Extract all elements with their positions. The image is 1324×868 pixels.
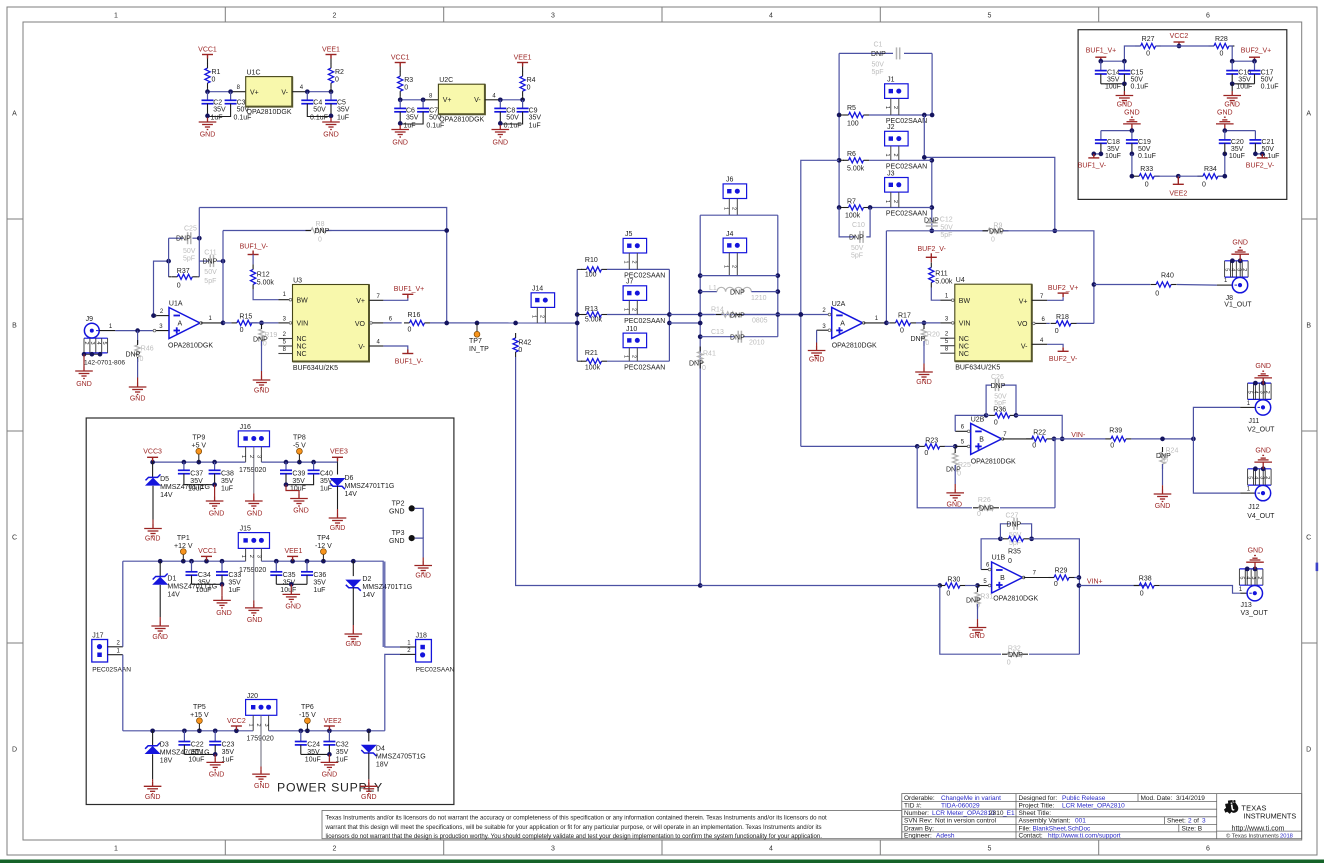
node C6 bottom <box>398 121 403 126</box>
wire R33 to VEE2 <box>1154 175 1178 177</box>
wire bottom row to R30 <box>700 585 942 587</box>
svg-text:10uF: 10uF <box>305 757 321 764</box>
svg-text:5: 5 <box>101 342 107 345</box>
connector J9 142-0701-806 <box>84 323 99 338</box>
svg-text:35V: 35V <box>292 478 305 485</box>
wire VCC2 to R28 <box>1179 45 1214 47</box>
svg-text:C5: C5 <box>337 99 346 106</box>
node feedback left <box>166 259 171 264</box>
svg-text:R26: R26 <box>978 497 991 504</box>
testpoint TP4 -12V <box>322 555 324 562</box>
svg-text:R42: R42 <box>518 340 531 347</box>
svg-text:GND: GND <box>1124 110 1140 117</box>
svg-text:35V: 35V <box>198 580 211 587</box>
svg-text:DNP: DNP <box>991 383 1006 390</box>
wire J-network left vertical <box>699 215 701 585</box>
svg-text:C6: C6 <box>406 107 415 114</box>
svg-text:VEE3: VEE3 <box>330 449 348 456</box>
svg-text:0: 0 <box>335 77 339 84</box>
wire R38 to J13 <box>1160 586 1241 594</box>
svg-text:0: 0 <box>1145 182 1149 189</box>
svg-text:4: 4 <box>1229 268 1235 271</box>
svg-text:V+: V+ <box>1019 298 1028 305</box>
svg-text:GND: GND <box>322 771 338 778</box>
svg-text:1: 1 <box>623 261 629 264</box>
svg-text:0: 0 <box>702 365 706 372</box>
zener diode D1 <box>159 561 161 576</box>
ground GND under C38 <box>214 485 216 497</box>
svg-text:NC: NC <box>959 336 969 343</box>
svg-text:R30: R30 <box>947 577 960 584</box>
svg-text:3: 3 <box>89 342 95 345</box>
svg-text:Drawn By:: Drawn By: <box>904 825 934 832</box>
svg-text:GND: GND <box>389 538 405 545</box>
node C15 bottom <box>1122 81 1127 86</box>
svg-text:NC: NC <box>297 351 307 358</box>
wire C14 bottom to C15 bottom <box>1101 83 1125 85</box>
power port BUF2_V- <box>1257 154 1268 158</box>
svg-text:2: 2 <box>892 154 898 157</box>
svg-text:0: 0 <box>1140 590 1144 597</box>
svg-text:C26: C26 <box>991 374 1004 381</box>
svg-text:0: 0 <box>318 237 322 244</box>
svg-text:GND: GND <box>1255 363 1271 370</box>
svg-text:J13: J13 <box>1241 602 1252 609</box>
pins J18 <box>400 646 416 648</box>
svg-text:V-: V- <box>281 89 288 96</box>
svg-text:C24: C24 <box>307 742 320 749</box>
capacitor C21 <box>1254 131 1256 140</box>
svg-text:R31: R31 <box>980 593 993 600</box>
svg-text:35V: 35V <box>221 478 234 485</box>
svg-text:VCC3: VCC3 <box>143 449 162 456</box>
svg-text:R8: R8 <box>316 221 325 228</box>
svg-text:J2: J2 <box>887 124 895 131</box>
svg-text:10uF: 10uF <box>280 587 296 594</box>
node R35 right <box>1029 536 1034 541</box>
svg-text:J11: J11 <box>1249 418 1260 425</box>
wire J18 pin1 to -12 rail <box>385 562 400 648</box>
wire R27 right to VCC2 <box>1156 45 1179 47</box>
svg-text:5: 5 <box>1247 391 1253 394</box>
svg-text:2: 2 <box>892 106 898 109</box>
svg-text:3: 3 <box>263 724 269 727</box>
wire C20/C21 top rail <box>1225 130 1256 132</box>
wire feedback top <box>199 208 446 324</box>
svg-text:5.00k: 5.00k <box>257 279 275 286</box>
svg-text:1uF: 1uF <box>320 486 332 493</box>
svg-text:35V: 35V <box>228 580 241 587</box>
zener diode D4 <box>368 731 370 742</box>
svg-text:DNP: DNP <box>924 217 939 224</box>
node VCC2 rail <box>1177 44 1182 49</box>
svg-text:14V: 14V <box>362 592 375 599</box>
svg-text:VEE2: VEE2 <box>324 718 342 725</box>
svg-text:1: 1 <box>247 724 253 727</box>
power port BUF1_V- (U3) <box>402 350 413 354</box>
svg-text:10uF: 10uF <box>1229 153 1245 160</box>
svg-text:3: 3 <box>1250 576 1256 579</box>
svg-text:2: 2 <box>731 207 737 210</box>
resistor R20 DNP <box>921 329 926 341</box>
svg-text:V1_OUT: V1_OUT <box>1224 302 1252 309</box>
wire to U1A pin3 <box>153 330 169 332</box>
svg-text:B: B <box>1000 575 1005 582</box>
svg-text:1uF: 1uF <box>228 587 240 594</box>
svg-text:U2B: U2B <box>971 416 985 423</box>
wire R10 to right vertical <box>607 268 669 270</box>
svg-text:5pF: 5pF <box>940 232 952 239</box>
node C5 bottom <box>329 114 334 119</box>
svg-text:R33: R33 <box>1140 166 1153 173</box>
wire R2 to rail <box>330 88 332 92</box>
resistor R6 <box>839 159 844 161</box>
svg-text:5.00k: 5.00k <box>935 278 953 285</box>
svg-text:J15: J15 <box>240 526 251 533</box>
svg-text:3: 3 <box>256 455 262 458</box>
node C8 bottom <box>498 121 503 126</box>
svg-text:V-: V- <box>1021 344 1028 351</box>
resistor R27 <box>1141 43 1156 48</box>
connector J8 V1_OUT <box>1225 260 1249 262</box>
TI logo <box>1224 800 1238 814</box>
wire -12V rail <box>261 561 383 647</box>
svg-text:10uF: 10uF <box>188 486 204 493</box>
svg-text:D2: D2 <box>362 576 371 583</box>
svg-text:1uF: 1uF <box>313 587 325 594</box>
svg-text:BUF2_V+: BUF2_V+ <box>1241 48 1272 55</box>
svg-text:0: 0 <box>1202 182 1206 189</box>
svg-text:VIN: VIN <box>297 321 309 328</box>
node feedback join <box>444 321 449 326</box>
op-amp U1B <box>992 562 1023 593</box>
svg-text:2018: 2018 <box>1280 833 1293 839</box>
svg-text:0: 0 <box>1155 290 1159 297</box>
resistor R41 DNP <box>698 352 703 364</box>
resistor R33 <box>1139 174 1154 179</box>
svg-text:R15: R15 <box>239 314 252 321</box>
node R25 branch <box>953 444 958 449</box>
svg-text:R21: R21 <box>585 350 598 357</box>
svg-text:C20: C20 <box>1231 139 1244 146</box>
node C11 right <box>221 259 226 264</box>
capacitor C22 <box>183 731 185 742</box>
svg-text:Public Release: Public Release <box>1062 795 1106 802</box>
svg-text:Orderable:: Orderable: <box>904 795 935 802</box>
svg-text:GND: GND <box>415 572 431 579</box>
svg-text:100k: 100k <box>585 364 601 371</box>
svg-text:2: 2 <box>892 200 898 203</box>
svg-text:Size: B: Size: B <box>1182 825 1203 832</box>
svg-text:R23: R23 <box>925 438 938 445</box>
jumper J17 PEC02SAAN <box>92 640 108 663</box>
svg-text:3: 3 <box>1258 476 1264 479</box>
svg-text:R36: R36 <box>993 406 1006 413</box>
svg-text:3: 3 <box>551 846 555 853</box>
wire C11 node down to output <box>222 231 224 323</box>
svg-text:0: 0 <box>1219 51 1223 58</box>
ground GND under D2 <box>352 625 354 630</box>
zener diode D2 <box>352 561 354 576</box>
svg-text:J20: J20 <box>247 693 258 700</box>
svg-text:0.1uF: 0.1uF <box>1131 84 1149 91</box>
wire U2B output <box>1003 438 1033 440</box>
svg-text:U4: U4 <box>956 277 965 284</box>
svg-text:GND: GND <box>145 794 161 801</box>
svg-text:BUF2_V-: BUF2_V- <box>1246 162 1275 169</box>
wire to J11 <box>1193 407 1240 439</box>
capacitor C18 <box>1100 131 1102 140</box>
svg-text:GND: GND <box>323 132 339 139</box>
resistor R15 <box>223 322 231 324</box>
svg-text:2810: 2810 <box>989 810 1004 817</box>
svg-text:D: D <box>1306 747 1311 754</box>
svg-text:DNP: DNP <box>911 336 926 343</box>
svg-text:http://www.ti.com: http://www.ti.com <box>1232 825 1285 832</box>
header J16 1759020 <box>238 431 269 447</box>
node R36 right <box>1014 413 1019 418</box>
svg-text:B: B <box>12 323 17 330</box>
svg-text:Not in version control: Not in version control <box>935 818 997 825</box>
wire R26 feedback loop <box>917 446 972 507</box>
svg-text:DNP: DNP <box>730 312 745 319</box>
testpoint TP7 IN_TP <box>476 323 478 332</box>
wire R23 to U2B pin5 <box>945 445 956 447</box>
svg-text:2: 2 <box>731 265 737 268</box>
svg-text:C13: C13 <box>711 329 724 336</box>
wire R5 to R6 step <box>924 115 932 157</box>
capacitor C16 <box>1231 61 1233 70</box>
svg-text:R41: R41 <box>703 351 716 358</box>
power port BUF1_V+ (U3) <box>402 294 413 298</box>
svg-text:C: C <box>1306 535 1311 542</box>
wire U4 V+ pin7 to BUF2_V+ <box>1032 299 1048 301</box>
svg-text:1uF: 1uF <box>221 486 233 493</box>
svg-text:VCC2: VCC2 <box>1170 33 1189 40</box>
wire R5 row <box>869 114 932 116</box>
ground GND under R46 <box>137 378 139 383</box>
capacitor C26 DNP <box>986 385 992 415</box>
capacitor C24 <box>300 731 302 742</box>
wire U2B input from R6 node <box>801 445 917 447</box>
svg-text:R10: R10 <box>585 257 598 264</box>
svg-text:R18: R18 <box>1056 314 1069 321</box>
node TP7 <box>475 321 480 326</box>
svg-text:2: 2 <box>333 13 337 20</box>
svg-text:TP6: TP6 <box>301 704 314 711</box>
connector J12 V4_OUT <box>1248 468 1272 470</box>
svg-text:Number:: Number: <box>904 810 929 817</box>
svg-text:NC: NC <box>959 351 969 358</box>
svg-text:C8: C8 <box>506 107 515 114</box>
svg-text:2010: 2010 <box>749 340 765 347</box>
svg-text:50V: 50V <box>1138 146 1151 153</box>
svg-text:1uF: 1uF <box>529 122 541 129</box>
resistor R24 DNP <box>1160 452 1165 464</box>
svg-text:100k: 100k <box>845 213 861 220</box>
svg-text:GND: GND <box>130 396 146 403</box>
svg-text:GND: GND <box>293 508 309 515</box>
testpoint TP1 +12V <box>182 555 184 562</box>
node C20 bottom <box>1222 152 1227 157</box>
wire inverting node up to feedback <box>154 261 169 316</box>
wire C18 bottom to BUF1_V- <box>1094 153 1101 155</box>
svg-text:BUF1_V-: BUF1_V- <box>1078 162 1107 169</box>
svg-text:NC: NC <box>297 344 307 351</box>
wire gain ladder left vertical <box>838 53 840 207</box>
op-amp U1A <box>169 308 200 339</box>
pins NC 2 5 8 <box>278 338 292 340</box>
wire U2C V- pin 4 <box>485 99 500 101</box>
jumper J2 PEC02SAAN <box>885 131 909 146</box>
svg-text:C35: C35 <box>283 572 296 579</box>
testpoint TP6 -15V <box>306 724 308 731</box>
jumper J7 PEC02SAAN <box>623 286 647 301</box>
power port VCC1 (U2C block) <box>395 63 406 67</box>
svg-text:OPA2810DGK: OPA2810DGK <box>832 343 877 350</box>
svg-text:BUF2_V-: BUF2_V- <box>917 246 946 253</box>
zener diode D3 <box>152 731 154 746</box>
wire U1B output <box>1024 577 1049 579</box>
svg-text:1: 1 <box>240 555 246 558</box>
ground GND under D3 <box>152 779 154 782</box>
ground GND under R19 <box>261 371 263 376</box>
svg-text:OPA2810DGK: OPA2810DGK <box>439 117 484 124</box>
svg-text:File:: File: <box>1019 825 1031 832</box>
wire C40 bottom to C39 bottom <box>286 474 314 485</box>
capacitor C19 <box>1131 131 1133 140</box>
capacitor C14 <box>1100 61 1102 70</box>
capacitor C5 <box>330 92 332 101</box>
svg-text:C37: C37 <box>190 471 203 478</box>
svg-text:5: 5 <box>1247 476 1253 479</box>
svg-text:http://www.ti.com/support: http://www.ti.com/support <box>1048 833 1121 840</box>
svg-text:35V: 35V <box>213 107 226 114</box>
capacitor C3 <box>230 92 232 101</box>
svg-text:A: A <box>12 111 17 118</box>
wire VEE2 to R34 <box>1178 175 1203 177</box>
power port VEE1 (U1C block) <box>330 59 332 64</box>
capacitor C12 DNP <box>926 222 938 224</box>
svg-text:OPA2810DGK: OPA2810DGK <box>971 459 1016 466</box>
header J20 1759020 <box>246 700 277 716</box>
wire U3 V- pin4 to BUF1_V- <box>369 345 383 347</box>
resistor R25 DNP <box>953 453 958 465</box>
resistor R34 <box>1203 174 1218 179</box>
power port VEE1 (U2C block) <box>522 67 524 72</box>
ground GND under J16 pin2 <box>253 493 255 496</box>
wire R15 to U3 VIN <box>250 322 279 324</box>
resistor R4 <box>520 76 525 91</box>
buffer supply enclosure box <box>1078 30 1287 200</box>
svg-text:R13: R13 <box>585 306 598 313</box>
wire C22 bottom to C23 bottom <box>184 753 215 755</box>
capacitor C34 <box>191 561 193 572</box>
svg-text:VCC1: VCC1 <box>391 55 410 62</box>
blue tick right margin <box>1316 563 1319 572</box>
pins J15 <box>245 548 247 561</box>
node J9 R46 branch <box>135 328 140 333</box>
svg-text:-5 V: -5 V <box>293 443 306 450</box>
jumper J18 PEC02SAAN <box>416 640 432 663</box>
wire U2A output <box>864 322 887 324</box>
capacitor C36 <box>306 561 308 572</box>
svg-text:R14: R14 <box>711 307 724 314</box>
svg-text:001: 001 <box>1075 818 1086 825</box>
svg-text:TP7: TP7 <box>469 338 482 345</box>
wire R36 row to output <box>1015 415 1062 439</box>
ground GND under C33 <box>221 584 223 596</box>
wire R27 left corner down <box>1124 46 1140 61</box>
svg-text:of: of <box>1194 818 1200 825</box>
svg-text:Assembly Variant:: Assembly Variant: <box>1019 818 1071 825</box>
svg-text:GND: GND <box>809 356 825 363</box>
svg-text:J9: J9 <box>86 316 94 323</box>
svg-text:50V: 50V <box>1131 77 1144 84</box>
power port VCC2 (supply) <box>231 726 242 730</box>
svg-text:4: 4 <box>95 342 101 345</box>
svg-text:GND: GND <box>209 771 225 778</box>
svg-text:MMSZ4701T1G: MMSZ4701T1G <box>362 584 412 591</box>
power port VEE2 (supply) <box>324 726 335 730</box>
svg-text:1759020: 1759020 <box>239 467 266 474</box>
svg-text:3: 3 <box>256 555 262 558</box>
svg-text:0: 0 <box>900 327 904 334</box>
svg-text:U1B: U1B <box>992 555 1006 562</box>
node C25 right <box>197 236 202 241</box>
svg-text:BUF1_V-: BUF1_V- <box>395 358 424 365</box>
resistor R35 <box>1000 538 1004 540</box>
nodes output U2B <box>1052 437 1057 442</box>
svg-text:DNP: DNP <box>126 352 141 359</box>
svg-text:3: 3 <box>1202 818 1206 825</box>
jumper J10 PEC02SAAN <box>623 333 647 348</box>
node R35 left <box>998 536 1003 541</box>
wire TP3 to gnd <box>415 538 423 557</box>
ground GND under D5 <box>152 520 154 525</box>
svg-text:C32: C32 <box>336 742 349 749</box>
resistor R17 <box>886 322 890 324</box>
svg-text:0: 0 <box>1164 458 1168 465</box>
wire R35 row to output vertical <box>1029 539 1079 654</box>
svg-text:R38: R38 <box>1139 576 1152 583</box>
wire R3 to rail <box>399 96 401 100</box>
wire J4 row <box>700 275 778 277</box>
svg-text:Engineer:: Engineer: <box>904 833 932 840</box>
node R31 branch <box>975 583 980 588</box>
title block grid <box>902 794 1302 839</box>
svg-text:50V: 50V <box>313 107 326 114</box>
resistor R3 <box>398 76 403 91</box>
resistor R2 <box>328 68 333 83</box>
resistor R26 DNP <box>979 505 994 510</box>
wire VIN+ net row <box>1079 585 1146 587</box>
wire J-network right vertical <box>777 215 779 337</box>
capacitor C2 <box>207 92 209 101</box>
svg-text:C21: C21 <box>1262 139 1275 146</box>
wire J17 pin2 up to +12 rail <box>122 561 124 647</box>
svg-text:0: 0 <box>991 236 995 243</box>
ground GND under R25 <box>954 484 956 488</box>
svg-text:V2_OUT: V2_OUT <box>1247 427 1275 434</box>
svg-text:J10: J10 <box>626 326 637 333</box>
svg-text:VO: VO <box>355 321 366 328</box>
zener diode D5 MMSZ4701T1G <box>152 462 154 477</box>
svg-text:0.1uF: 0.1uF <box>1138 153 1156 160</box>
svg-text:GND: GND <box>389 509 405 516</box>
svg-text:0: 0 <box>977 511 981 518</box>
svg-text:PEC02SAAN: PEC02SAAN <box>92 667 131 674</box>
